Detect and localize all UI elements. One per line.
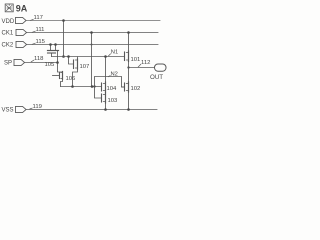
junction VDD drop top — [62, 19, 65, 22]
wire SP bus — [25, 62, 58, 64]
svg-text:104: 104 — [107, 86, 118, 92]
transistor 103 — [95, 87, 106, 110]
transistor 105 — [48, 45, 59, 57]
leader 118 — [31, 60, 34, 62]
wire VDD drop to node N1 — [63, 21, 65, 57]
transistor 106 — [53, 72, 63, 87]
junction 105 gate on CK2 — [54, 43, 57, 46]
junction 105 drain on CK2 — [49, 43, 52, 46]
junction CK1 drop on gate line — [91, 85, 94, 88]
node N2 wire — [95, 77, 125, 88]
junction CK1 drop crossing CK2 — [91, 44, 93, 46]
junction SP riser — [56, 61, 59, 64]
svg-text:106: 106 — [66, 76, 77, 82]
svg-text:118: 118 — [34, 56, 44, 62]
leader 119 — [30, 107, 32, 110]
junction 103 source on VSS — [104, 108, 107, 111]
svg-text:112: 112 — [141, 60, 150, 66]
svg-text:102: 102 — [131, 86, 141, 92]
junction 107 gate on N1 — [67, 55, 70, 58]
leader 115 — [32, 43, 35, 44]
svg-text:CK2: CK2 — [2, 43, 14, 49]
wire CK1 drop — [91, 33, 93, 87]
svg-text:107: 107 — [80, 64, 90, 70]
svg-text:N2: N2 — [111, 71, 118, 77]
svg-text:115: 115 — [36, 39, 46, 45]
svg-text:CK1: CK1 — [2, 31, 14, 37]
gate line y87 — [61, 86, 102, 88]
svg-text:103: 103 — [108, 98, 119, 104]
wire OUT to 102 drain — [128, 68, 130, 83]
junction VDD drop bottom — [62, 55, 65, 58]
junction 104 drain on N1 — [104, 55, 107, 58]
terminal OUT — [155, 64, 167, 71]
junction N2 bend on gate line — [93, 85, 95, 87]
leader 117 — [30, 20, 33, 21]
svg-text:N1: N1 — [111, 50, 118, 56]
wire CK2 bus — [27, 44, 158, 46]
wire VSS bus — [27, 109, 158, 111]
transistor 104 — [102, 57, 106, 93]
svg-text:OUT: OUT — [150, 74, 163, 81]
svg-text:VDD: VDD — [2, 19, 15, 25]
wire SP riser (105 source / 106 drain) — [58, 51, 63, 73]
junction 107 source on gate line — [71, 85, 74, 88]
leader 111 — [32, 31, 35, 32]
svg-text:101: 101 — [131, 57, 141, 63]
svg-text:105: 105 — [45, 62, 56, 68]
junction 102 source on VSS — [127, 108, 130, 111]
svg-text:SP: SP — [4, 61, 12, 67]
leader N2 — [108, 76, 110, 77]
wire CK1 bus — [27, 32, 158, 34]
svg-text:VSS: VSS — [2, 108, 14, 114]
svg-text:119: 119 — [33, 104, 42, 110]
svg-text:111: 111 — [36, 27, 45, 33]
figure label 図9A — [5, 4, 13, 12]
wire VDD bus — [27, 20, 161, 22]
svg-text:9A: 9A — [16, 4, 28, 14]
junction CK1 drop top — [90, 31, 93, 34]
transistor 107 — [69, 57, 78, 87]
junction OUT node — [127, 66, 129, 68]
junction 101 drain on CK1 — [127, 31, 130, 34]
leader 112 — [138, 64, 141, 67]
wire OUT — [129, 67, 155, 69]
transistor 102 — [122, 82, 129, 110]
leader N1 — [109, 54, 111, 56]
node N1 wire — [52, 56, 125, 58]
transistor 101 — [125, 33, 129, 68]
